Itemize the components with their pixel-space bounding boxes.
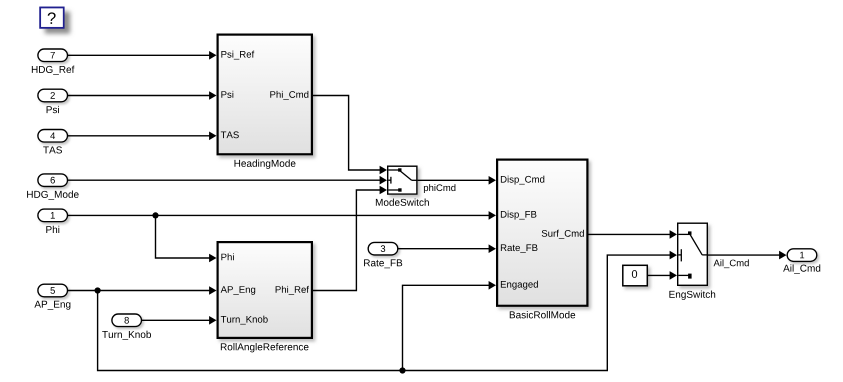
- wire HDG_Ref to HeadingMode: [68, 51, 217, 60]
- wire Phi branch to RollAngleReference Phi: [156, 215, 217, 262]
- inport 6 HDG_Mode: [27, 174, 79, 200]
- inport 1 Phi: [38, 209, 68, 233]
- node Phi branch: [152, 212, 158, 218]
- wire TAS to HeadingMode: [68, 132, 217, 141]
- constant 0: [623, 265, 648, 286]
- inport 3 Rate_FB: [364, 242, 402, 268]
- wire Rate_FB to BasicRollMode: [398, 244, 496, 253]
- subsystem BasicRollMode: [497, 160, 587, 319]
- node bottom branch: [399, 367, 405, 373]
- inport 7 HDG_Ref: [32, 49, 75, 75]
- wire bottom branch to BasicRollMode Engaged: [403, 281, 497, 371]
- wire Phi to BasicRollMode Disp_FB: [68, 211, 497, 220]
- wire Psi to HeadingMode: [68, 91, 217, 100]
- wire Turn_Knob to RollAngleReference: [142, 316, 217, 325]
- wire HDG_Mode to ModeSwitch control: [68, 176, 388, 185]
- wire Ail_Cmd EngSwitch to outport: [707, 251, 786, 268]
- node AP_Eng branch: [95, 287, 101, 293]
- wire AP_Eng to RollAngleReference: [68, 286, 217, 295]
- switch ModeSwitch: [376, 166, 429, 206]
- doc block ?: [40, 8, 64, 28]
- wire phiCmd ModeSwitch to BasicRollMode: [418, 176, 496, 193]
- wire Phi_Ref to ModeSwitch in3: [313, 186, 387, 291]
- switch EngSwitch: [669, 223, 715, 300]
- inport 5 AP_Eng: [34, 284, 70, 309]
- inport 4 TAS: [38, 130, 68, 154]
- subsystem RollAngleReference: [218, 242, 312, 352]
- wire Phi_Cmd to ModeSwitch in1: [313, 96, 387, 175]
- subsystem HeadingMode: [218, 35, 312, 169]
- inport 8 Turn_Knob: [102, 314, 151, 340]
- inport 2 Psi: [38, 89, 68, 113]
- wire constant to EngSwitch in3: [648, 271, 677, 280]
- wire AP_Eng branch to EngSwitch control: [98, 251, 677, 371]
- wire Surf_Cmd to EngSwitch in1: [589, 230, 678, 239]
- outport 1 Ail_Cmd: [783, 249, 820, 274]
